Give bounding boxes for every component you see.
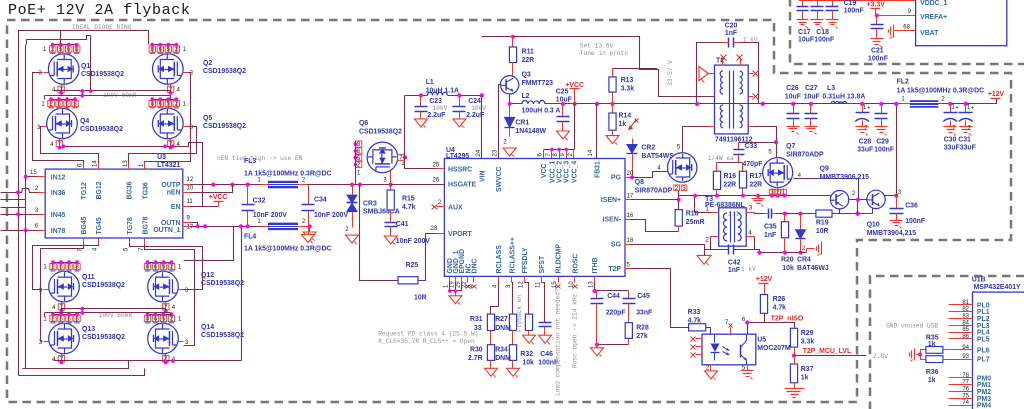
svg-text:HSSRC: HSSRC: [448, 167, 472, 174]
svg-text:33uF: 33uF: [857, 146, 873, 153]
wire ISEN+ to R18 top: [631, 199, 679, 201]
wire left input bus v2: [25, 45, 27, 231]
connector U1A VDDC VREFA VBAT: [916, 0, 1007, 46]
svg-text:FL3: FL3: [244, 158, 256, 165]
svg-text:RLDCMP: RLDCMP: [556, 244, 563, 274]
wire Q9 base rail: [830, 196, 832, 200]
wire input line IN78: [1, 230, 38, 232]
svg-text:R31: R31: [470, 316, 483, 323]
svg-text:SIR870ADP: SIR870ADP: [635, 187, 673, 194]
capacitor C34: [308, 185, 310, 205]
svg-text:RCLASS: RCLASS: [496, 245, 503, 274]
U1B pin PM2: [949, 391, 973, 393]
svg-text:R34: R34: [495, 347, 508, 354]
T2 left pin to arrow: [709, 73, 715, 75]
svg-text:SG: SG: [611, 241, 621, 248]
capacitor C42 1nF 1kV: [728, 245, 730, 255]
svg-text:C25: C25: [556, 89, 569, 96]
optocoupler U5 MOC207M: [702, 334, 756, 365]
wire Q6 drain to L1 node: [404, 96, 406, 158]
power flag +3.3V: [871, 8, 881, 10]
wire C20 right to secondary rail: [741, 43, 759, 104]
svg-text:DNM: DNM: [495, 355, 511, 362]
wire T3 pin2 to C42: [711, 237, 729, 250]
svg-text:SIR870ADP: SIR870ADP: [786, 151, 824, 158]
svg-text:Q3: Q3: [522, 72, 531, 79]
svg-text:14: 14: [93, 160, 99, 167]
resistor R20 10k: [784, 214, 786, 222]
transistor Q6 CSD19538Q2 hot-swap FET: [367, 142, 398, 173]
svg-text:R_CLS=35.7R R_CLS++ = Open: R_CLS=35.7R R_CLS++ = Open: [378, 338, 475, 345]
svg-text:Q11: Q11: [82, 274, 95, 281]
wire T2 bottom-right to Q7 drain: [749, 126, 754, 128]
svg-text:20: 20: [627, 171, 634, 177]
svg-text:82: 82: [962, 307, 969, 313]
svg-text:86: 86: [962, 334, 969, 340]
capacitor C31 33uF polarized: [965, 104, 967, 113]
svg-text:25: 25: [433, 163, 440, 169]
svg-text:14: 14: [588, 149, 594, 156]
svg-text:VIN: VIN: [479, 170, 486, 182]
svg-text:PL5: PL5: [977, 336, 990, 343]
svg-text:R15: R15: [402, 196, 415, 203]
wire BG78 to Q14 gate: [145, 245, 195, 346]
svg-text:33nF: 33nF: [636, 310, 652, 317]
svg-text:Q6: Q6: [359, 120, 368, 127]
wire VBAT to chassis: [895, 30, 916, 32]
svg-text:R37: R37: [801, 366, 814, 373]
svg-text:BG78: BG78: [142, 216, 149, 234]
resistor R33 4.7k: [689, 324, 706, 331]
svg-text:SWVCC: SWVCC: [496, 166, 503, 192]
snubber wire to C33: [739, 142, 777, 144]
svg-text:12: 12: [519, 281, 525, 288]
wire OUTN rail: [191, 226, 262, 228]
svg-text:FL2: FL2: [897, 79, 909, 86]
transistor Q9 MMBT3906: [830, 191, 849, 209]
ground at FL4 output: [308, 224, 312, 228]
svg-text:DNC: DNC: [471, 259, 478, 274]
wire OUTN return drop: [241, 227, 243, 361]
svg-text:1:1: 1:1: [728, 211, 739, 218]
diode CR1 1N4148W: [509, 104, 511, 118]
svg-text:27k: 27k: [636, 333, 648, 340]
svg-text:BG12: BG12: [96, 181, 103, 199]
wire OUTN drop to bottom ring: [184, 227, 234, 261]
svg-text:10R: 10R: [816, 228, 829, 235]
svg-text:FMMT723: FMMT723: [522, 80, 554, 87]
sheet border top-right MCU power box: [790, 0, 1024, 64]
svg-text:IN45: IN45: [51, 212, 66, 219]
U1B pin PL3: [949, 325, 973, 327]
capacitor C35 1nF: [768, 209, 770, 219]
svg-text:Rosc open -> 214 kHz: Rosc open -> 214 kHz: [572, 293, 579, 368]
U1B pin PL0: [949, 304, 973, 306]
svg-text:C24: C24: [468, 98, 481, 105]
Q8 source pins 2 3: [674, 185, 680, 191]
wire Q10 collector to +12V rail: [885, 195, 897, 197]
wire C35 to R19 line: [777, 213, 816, 215]
svg-text:10uF: 10uF: [556, 97, 572, 104]
wire left input bus v3: [18, 215, 20, 376]
power flag +VCC at EN: [214, 201, 224, 203]
wire VIN drop: [481, 96, 483, 159]
power flag +12V at R26: [759, 283, 769, 285]
wire BG45 to Q13 gate: [41, 245, 84, 342]
transistor Q1 CSD19538Q2: [48, 54, 79, 85]
svg-text:BAT54WS: BAT54WS: [641, 153, 674, 160]
resistor R16 22R: [716, 163, 718, 172]
resistor R34 DNM: [512, 331, 514, 345]
svg-text:10nF 200V: 10nF 200V: [253, 212, 287, 219]
wire T3 pin1 to rail: [695, 212, 711, 214]
svg-text:CR3: CR3: [363, 201, 377, 208]
svg-text:2.2uF: 2.2uF: [427, 112, 445, 119]
ground at C41: [384, 236, 397, 244]
svg-text:LT4295: LT4295: [446, 153, 469, 160]
svg-text:BAT46WJ: BAT46WJ: [797, 265, 829, 272]
wire R19 to base node: [833, 213, 873, 215]
svg-text:R28: R28: [636, 325, 649, 332]
svg-text:TG78: TG78: [127, 217, 134, 234]
wire Q3 base to SWVCC: [499, 84, 501, 86]
T3 pin 1: [711, 212, 719, 214]
svg-text:33uF33uF: 33uF33uF: [944, 144, 976, 151]
sheet border bottom-right MCU box: [870, 276, 1024, 409]
svg-text:C30 C31: C30 C31: [944, 137, 971, 144]
wire T2P to opto branch: [631, 269, 689, 328]
transistor Q8 SIR870ADP: [668, 153, 697, 182]
svg-text:ISEN+: ISEN+: [601, 197, 621, 204]
U5 pin 5 emitter to chassis: [747, 365, 749, 371]
wire nEN tie: [191, 185, 233, 193]
ground at R14: [606, 136, 619, 144]
svg-text:81: 81: [962, 300, 969, 306]
svg-text:C34: C34: [314, 197, 327, 204]
svg-text:L2: L2: [522, 93, 530, 100]
svg-text:10R: 10R: [414, 295, 427, 302]
svg-text:10: 10: [187, 186, 194, 192]
svg-text:DNM: DNM: [495, 325, 511, 332]
svg-text:78: 78: [962, 373, 969, 379]
svg-text:C20: C20: [725, 23, 738, 30]
transistor Q10 MMBT3904: [867, 190, 886, 208]
svg-text:MOC207M: MOC207M: [757, 345, 791, 352]
capacitor C18: [817, 1, 819, 7]
U1B pin PL4: [949, 332, 973, 334]
wire Q4-Q5 source rail mid: [64, 143, 203, 207]
svg-text:100nF: 100nF: [874, 146, 894, 153]
svg-text:33-57 V: 33-57 V: [667, 60, 674, 86]
svg-text:ITHB: ITHB: [592, 257, 599, 273]
U1B pin PL5: [949, 338, 973, 340]
wire input line IN45: [1, 214, 38, 216]
Q6 drain pin 7: [398, 154, 404, 160]
wire top bus B with hop: [27, 36, 91, 91]
transistor Q14 CSD19538Q2: [148, 323, 179, 354]
svg-text:OUTN_1: OUTN_1: [153, 227, 180, 234]
svg-text:MMBT3904,215: MMBT3904,215: [867, 230, 917, 237]
TVS diode CR3 SMBJ64CA: [352, 185, 354, 195]
wire EN tie: [191, 206, 219, 208]
svg-text:Flyback en: Flyback en: [516, 295, 523, 332]
wire Q6 source column to rail: [355, 141, 357, 185]
svg-text:1nF: 1nF: [728, 267, 740, 274]
U1B pin PL2: [949, 318, 973, 320]
wire output rail to +12V: [763, 103, 910, 105]
svg-text:1A 1k5@100MHz 0.3R@DC: 1A 1k5@100MHz 0.3R@DC: [897, 88, 985, 95]
capacitor C17: [802, 1, 804, 7]
wire PG to Q8 gate: [633, 172, 668, 178]
chassis ground at CR4: [821, 242, 823, 255]
resistor R29 3.3k: [790, 328, 797, 347]
svg-text:OUTN: OUTN: [161, 220, 181, 227]
svg-text:3.3k: 3.3k: [621, 86, 635, 93]
svg-text:C33: C33: [745, 143, 758, 150]
wire 3.3V cap rail: [799, 0, 916, 2]
wire VREFA+ node: [876, 15, 916, 17]
svg-text:EN: EN: [171, 204, 181, 211]
Q6 source pin boxes: [355, 141, 361, 147]
wire L1 input rail: [405, 95, 428, 97]
svg-text:R17: R17: [750, 173, 763, 180]
wire input line IN12: [26, 176, 38, 178]
wire C42 right to T3 pin4: [734, 237, 755, 250]
chassis arrow ground at C42: [705, 250, 711, 256]
diode CR4 BAT46WJ: [800, 214, 802, 230]
U1B pin PM4: [949, 405, 973, 407]
U1B pin PL6: [949, 349, 973, 351]
wire T3 pin4 bottom node: [755, 250, 801, 253]
svg-text:Q4: Q4: [80, 118, 89, 125]
wire input line pair2: [1, 189, 38, 193]
svg-text:22R: 22R: [724, 182, 737, 189]
svg-text:4.7k: 4.7k: [402, 204, 416, 211]
svg-text:VCC_3: VCC_3: [564, 161, 571, 183]
wire FB31 drop: [596, 104, 598, 159]
svg-text:3.3k: 3.3k: [801, 339, 815, 346]
wire OUTP rail: [191, 184, 445, 186]
svg-text:+VCC: +VCC: [209, 194, 228, 201]
svg-text:VCC_1: VCC_1: [549, 161, 556, 183]
svg-text:R29: R29: [801, 330, 814, 337]
svg-text:C46: C46: [540, 351, 553, 358]
wire T2 bottom-left to Q8 drain: [709, 126, 715, 128]
power flag +12V output: [991, 98, 1001, 100]
svg-text:12: 12: [187, 177, 194, 183]
resistor R13 3.3k: [613, 69, 657, 70]
capacitor C24 2.2uF: [459, 96, 461, 107]
ferrite bead FL2: [897, 103, 910, 105]
svg-text:CSD19538Q2: CSD19538Q2: [203, 68, 246, 75]
svg-text:CSD19538Q2: CSD19538Q2: [203, 123, 246, 130]
svg-text:18: 18: [627, 238, 634, 244]
svg-text:C28: C28: [859, 139, 872, 146]
svg-text:IN78: IN78: [51, 228, 66, 235]
svg-text:100nF: 100nF: [868, 56, 888, 63]
resistor R36 1k: [926, 356, 943, 363]
svg-text:75: 75: [962, 393, 969, 399]
wire R29 to R37 node: [794, 348, 796, 356]
resistor R35 1k: [926, 347, 943, 354]
wire snubber split: [717, 162, 743, 164]
wire top rail VIN to R11 to T2: [482, 37, 715, 97]
svg-text:PoE+ 12V 2A flyback: PoE+ 12V 2A flyback: [8, 2, 190, 19]
wire TG45 to Q11 gate: [33, 245, 99, 290]
resistor R32 10k FFSDLY: [525, 283, 529, 315]
svg-text:Set 13.6V: Set 13.6V: [580, 43, 614, 50]
svg-text:L3: L3: [827, 85, 835, 92]
wire source-drain mid link: [45, 91, 83, 96]
svg-text:C32: C32: [253, 198, 266, 205]
U5 pin 7 no connect: [730, 328, 732, 335]
svg-text:17: 17: [187, 225, 194, 231]
transistor Q7 SIR870ADP: [763, 158, 793, 188]
svg-text:+: +: [971, 105, 975, 111]
svg-text:C17: C17: [798, 29, 811, 36]
wire bottom ring source bus: [54, 360, 242, 362]
wire SG to chassis: [631, 245, 705, 256]
U1B pin PL1: [949, 311, 973, 313]
svg-text:U3: U3: [157, 154, 166, 161]
T2 top pins no-connect: [722, 59, 724, 66]
svg-text:CSD19538Q2: CSD19538Q2: [82, 282, 125, 289]
svg-text:C26: C26: [786, 85, 799, 92]
svg-text:R16: R16: [724, 173, 737, 180]
wire output rail through T2: [697, 103, 763, 105]
svg-text:C42: C42: [728, 260, 741, 267]
svg-text:Q14: Q14: [201, 324, 214, 331]
resistor R19 10R: [816, 210, 832, 217]
wire input line spare2: [1, 207, 26, 209]
svg-text:OUTP: OUTP: [161, 182, 181, 189]
ground at C44: [591, 348, 604, 356]
capacitor C27 10uF: [810, 104, 812, 114]
svg-text:MSP432E401Y: MSP432E401Y: [974, 284, 1022, 291]
capacitor C25 10uF: [562, 104, 564, 117]
svg-text:CSD19538Q2: CSD19538Q2: [201, 280, 244, 287]
svg-text:1A 1k5@100MHz 0.3R@DC: 1A 1k5@100MHz 0.3R@DC: [244, 246, 332, 253]
wire ISEN- to R18 bottom: [631, 220, 679, 232]
resistor R14 1k: [612, 104, 614, 113]
svg-text:13: 13: [589, 281, 595, 288]
resistor R28 27k: [625, 323, 632, 339]
svg-text:1nF: 1nF: [764, 232, 776, 239]
svg-text:C35: C35: [764, 224, 777, 231]
svg-text:C23: C23: [429, 98, 442, 105]
svg-text:100nF: 100nF: [905, 218, 925, 225]
svg-text:1k: 1k: [619, 121, 627, 128]
svg-text:VCC_4: VCC_4: [571, 161, 578, 183]
svg-text:Request PD class 4 (25.5 W): Request PD class 4 (25.5 W): [378, 331, 478, 338]
resistor R27 DNM RCLASS++: [512, 283, 513, 315]
svg-text:Tune in proto: Tune in proto: [580, 50, 629, 57]
transistor Q11 CSD19538Q2: [49, 271, 80, 302]
Q6 gate pin 3: [390, 171, 392, 185]
svg-text:BG45: BG45: [81, 216, 88, 234]
wire HSGATE to Q6 gate: [391, 184, 445, 186]
svg-text:100nF: 100nF: [814, 37, 834, 44]
wire BG12 to Q4 gate: [41, 127, 99, 163]
resistor R31 33 RCLASS: [491, 283, 499, 315]
svg-text:R13: R13: [621, 77, 634, 84]
svg-text:100uH 0.3 A: 100uH 0.3 A: [522, 108, 561, 115]
svg-text:VPORT: VPORT: [448, 231, 473, 238]
chassis ground arrow at SG: [697, 255, 711, 264]
capacitor C29 100nF: [881, 104, 883, 114]
wire left input bus v1: [18, 39, 20, 215]
svg-text:100V: 100V: [433, 105, 448, 112]
wire Q11-Q12 source rail: [62, 309, 166, 311]
ferrite bead FL4: [262, 226, 269, 228]
svg-text:10uF: 10uF: [804, 93, 820, 100]
wire top drain bus A: [19, 31, 149, 45]
svg-text:VCC_2: VCC_2: [557, 161, 564, 183]
resistor R30 2.7R: [490, 331, 492, 345]
svg-text:Q2: Q2: [203, 60, 212, 67]
svg-text:MMBT3906,215: MMBT3906,215: [820, 174, 870, 181]
resistor R26 4.7k: [760, 295, 767, 314]
svg-text:28: 28: [431, 226, 438, 232]
svg-text:0.31uH 13.8A: 0.31uH 13.8A: [822, 93, 865, 100]
svg-text:C44: C44: [607, 293, 620, 300]
svg-text:1nF: 1nF: [725, 30, 737, 37]
resistor R37 1k: [790, 364, 797, 383]
svg-text:19: 19: [449, 281, 455, 288]
svg-text:17: 17: [627, 194, 634, 200]
svg-text:FFSDLY: FFSDLY: [522, 247, 529, 274]
svg-text:1k: 1k: [801, 375, 809, 382]
svg-text:Q9: Q9: [820, 166, 829, 173]
wire R25 to VPORT: [419, 234, 445, 281]
svg-text:68: 68: [903, 25, 910, 31]
wire TG78 to Q12 gate: [130, 245, 203, 290]
wire Q3 emitter to L2: [510, 95, 523, 104]
wire U4 GND pins: [450, 283, 462, 291]
capacitor C33 470pF: [738, 143, 740, 150]
svg-text:CSD19538Q2: CSD19538Q2: [359, 129, 402, 136]
svg-text:+3.3V: +3.3V: [867, 2, 886, 9]
wire left input bus v4: [25, 231, 27, 369]
svg-text:IN36: IN36: [51, 190, 66, 197]
svg-text:1 kV: 1 kV: [741, 266, 756, 273]
svg-text:470pF: 470pF: [743, 161, 763, 168]
svg-text:U1B: U1B: [972, 277, 986, 284]
capacitor C41 10nF: [385, 222, 398, 224]
svg-text:CSD19538Q2: CSD19538Q2: [201, 332, 244, 339]
svg-text:PM4: PM4: [977, 403, 991, 409]
capacitor C21 100nF: [876, 16, 878, 25]
svg-text:IN12: IN12: [51, 174, 66, 181]
svg-text:+: +: [955, 105, 959, 111]
svg-text:R18: R18: [686, 211, 699, 218]
wire Q9 collector down: [839, 209, 841, 214]
svg-text:VREFA+: VREFA+: [920, 14, 947, 21]
svg-text:CSD19538Q2: CSD19538Q2: [80, 126, 123, 133]
ferrite bead FL3: [262, 184, 269, 186]
svg-text:Q13: Q13: [82, 326, 95, 333]
svg-text:CSD19538Q2: CSD19538Q2: [82, 334, 125, 341]
svg-text:C18: C18: [816, 29, 829, 36]
svg-text:10k: 10k: [522, 360, 534, 367]
U1B pin PM0: [949, 377, 973, 379]
svg-text:24: 24: [476, 149, 482, 156]
svg-text:U5: U5: [757, 337, 766, 344]
svg-text:Q8: Q8: [635, 179, 644, 186]
svg-text:CSD19538Q2: CSD19538Q2: [81, 71, 124, 78]
wire R26 to opto collector node: [748, 314, 765, 323]
svg-text:VDDC_1: VDDC_1: [920, 0, 947, 7]
